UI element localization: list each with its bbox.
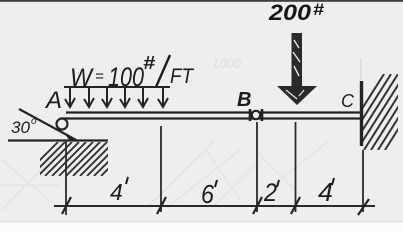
svg-text:W: W bbox=[70, 64, 94, 92]
hinge B bbox=[250, 109, 262, 121]
dimension labels bbox=[110, 177, 333, 209]
tick slashes bbox=[62, 197, 369, 215]
beam (double line A to C) bbox=[61, 113, 361, 119]
ghost bleed-through marks bbox=[0, 56, 361, 210]
label w = 100#/FT bbox=[70, 53, 195, 92]
wall support at C bbox=[336, 74, 403, 150]
svg-text:200: 200 bbox=[268, 0, 312, 25]
svg-text:A: A bbox=[44, 87, 62, 114]
point load 200# arrow bbox=[277, 33, 317, 105]
svg-text:C: C bbox=[341, 91, 355, 111]
svg-text:2: 2 bbox=[263, 179, 277, 207]
svg-text:6: 6 bbox=[201, 179, 214, 209]
dimension line bbox=[54, 205, 375, 207]
incline arrowhead bbox=[64, 133, 78, 141]
svg-text:#: # bbox=[143, 53, 155, 73]
svg-text:1000: 1000 bbox=[212, 56, 242, 71]
support A incline 30deg bbox=[8, 109, 108, 141]
distributed load w top line bbox=[64, 86, 170, 88]
svg-text:4: 4 bbox=[110, 179, 123, 205]
roller A circle bbox=[57, 119, 68, 130]
svg-text:FT: FT bbox=[170, 65, 195, 88]
svg-text:=: = bbox=[95, 68, 104, 85]
ground hatch block at A bbox=[24, 142, 135, 176]
svg-text:4: 4 bbox=[318, 177, 333, 207]
svg-text:B: B bbox=[237, 89, 251, 111]
dimension extension lines bbox=[66, 122, 363, 215]
dimension label prime marks bbox=[126, 177, 334, 187]
svg-text:100: 100 bbox=[108, 62, 144, 92]
label 30deg bbox=[11, 116, 37, 137]
distributed load arrows bbox=[65, 87, 168, 107]
svg-text:o: o bbox=[31, 116, 37, 127]
svg-text:#: # bbox=[313, 0, 325, 19]
label B bbox=[237, 89, 251, 111]
svg-text:30: 30 bbox=[11, 118, 31, 137]
label A bbox=[44, 87, 62, 114]
label C bbox=[341, 91, 355, 111]
label 200# bbox=[268, 0, 325, 25]
